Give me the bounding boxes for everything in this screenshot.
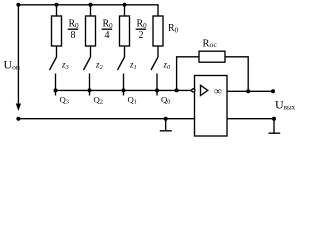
svg-text:Q2: Q2 [94,94,103,105]
switch z0 lever [151,57,158,70]
svg-text:∞: ∞ [214,86,222,98]
switch z3 lever [50,57,57,70]
svg-text:z2: z2 [95,60,104,72]
node top rail left [16,3,20,7]
fraction bar R0/2 [136,28,146,30]
svg-text:R0: R0 [103,19,114,31]
node ground tap left [164,117,168,121]
node Q3 [54,88,58,92]
wire top rail [18,5,158,16]
svg-text:z0: z0 [163,60,172,72]
svg-text:4: 4 [105,30,110,41]
svg-text:R0: R0 [69,19,80,31]
node top rail R0/8 [55,3,59,7]
svg-text:Uоп: Uоп [4,58,20,72]
svg-text:Uвых: Uвых [275,98,296,112]
svg-text:R0: R0 [137,19,148,31]
node Q2 [88,88,92,92]
wire bottom ground rail left [18,118,194,120]
wire feedback left branch [177,57,199,91]
svg-text:8: 8 [71,30,76,41]
svg-text:R0: R0 [168,23,179,35]
op-amp inverting input circle [192,89,195,92]
svg-text:Q3: Q3 [60,94,69,105]
node ground tap right [272,117,276,121]
resistor R0 [153,16,163,46]
node output junction [246,89,250,93]
resistor R0/4 [86,16,96,46]
node top rail R0/4 [89,3,93,7]
svg-text:Rос: Rос [203,38,218,49]
node output terminal [271,89,275,93]
switch z1 lever [118,57,125,70]
fraction bar R0/4 [102,28,112,30]
ground symbol left [160,119,172,131]
resistor R0/2 [120,16,130,46]
node Q0 [155,88,159,92]
node feedback junction [175,88,179,92]
wire bottom ground rail right [227,118,274,120]
svg-text:2: 2 [139,30,144,41]
wire output [227,90,273,92]
wire feedback right branch [225,57,248,92]
svg-text:z3: z3 [61,60,70,72]
wire resistor top stubs [57,5,125,16]
svg-text:Q0: Q0 [161,94,170,105]
node Q1 [122,88,126,92]
switch z2 lever [84,57,91,70]
wire switch lower stubs [56,74,158,96]
ground symbol right [269,119,281,134]
svg-text:z1: z1 [129,60,137,72]
wire resistor bottom stubs [57,46,159,57]
op-amp U1 body [195,76,228,137]
node top rail R0/2 [123,3,127,7]
fraction bar R0/8 [68,28,78,30]
wire summing node rail [56,89,193,91]
arrow head Uop [16,104,21,112]
node bottom rail left end [16,117,20,121]
svg-text:Q1: Q1 [128,94,137,105]
op-amp triangle symbol [201,85,208,95]
wire left vertical Uop lead [17,5,19,104]
resistor R0/8 [52,16,62,46]
resistor Roc [199,51,225,62]
